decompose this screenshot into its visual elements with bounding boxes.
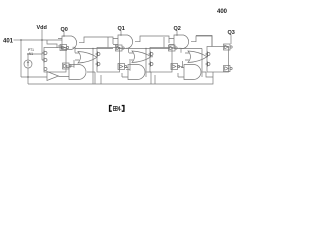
wire A3b inputs xyxy=(178,68,184,78)
wire box3 clock tap xyxy=(163,37,165,48)
latch box U3 xyxy=(150,48,172,73)
wire A2 output xyxy=(135,36,174,45)
transistor marks U4 left xyxy=(207,53,210,56)
wire D3t to OR3 xyxy=(179,48,182,53)
wire I1 bottom xyxy=(27,68,29,84)
wire O1 output xyxy=(96,56,99,58)
current source I1 xyxy=(24,60,32,68)
wire A3 output xyxy=(191,36,212,46)
latch box U4 xyxy=(207,47,229,73)
caption figure 4 xyxy=(110,106,124,112)
inverter D3b xyxy=(171,64,178,70)
wire A1 inputs xyxy=(58,39,62,47)
transistor marks U3 left xyxy=(150,53,153,56)
junction dots xyxy=(20,34,178,78)
inverter D1b xyxy=(63,63,70,69)
and gate A2 xyxy=(118,35,133,49)
wire D3b branch xyxy=(179,61,183,68)
or gate O3 xyxy=(188,51,207,63)
and gate A1 xyxy=(62,36,77,50)
wire O1 inputs xyxy=(75,53,79,60)
inverter D4t xyxy=(224,44,231,50)
wire O2 output xyxy=(151,56,153,58)
wire O2 inputs xyxy=(129,53,133,60)
wire D2b branch xyxy=(126,61,130,71)
wire O3 output xyxy=(207,56,208,58)
wire D1b branch xyxy=(70,60,75,68)
wire y48 inter-stage 3 xyxy=(181,49,202,78)
wire U2 tail xyxy=(100,75,102,84)
latch box U2 xyxy=(97,48,120,73)
wire A3b output xyxy=(203,72,214,77)
power Vdd lead xyxy=(41,30,43,61)
inverter D1t xyxy=(60,45,67,51)
wire y48 inter-stage 2 xyxy=(129,49,170,78)
wire Q2 tick xyxy=(176,31,178,36)
wire input rail y40 xyxy=(21,39,62,41)
wire box2 clock tap xyxy=(107,37,109,48)
wire U3 tail xyxy=(154,75,156,84)
buffer B1 xyxy=(47,72,59,81)
latch box U1 xyxy=(44,48,66,73)
transistor marks U2 left xyxy=(97,53,100,56)
wire left vertical x21 xyxy=(20,40,22,77)
inverter D2b xyxy=(118,64,125,70)
svg-text:400: 400 xyxy=(217,9,228,15)
inverter D3t xyxy=(169,45,176,51)
wire y48 inter-stage 1 xyxy=(75,49,113,85)
or gate O1 xyxy=(78,52,97,64)
wire A1b inputs xyxy=(59,68,70,77)
wire Q1 tick xyxy=(120,31,122,36)
wire A1b output xyxy=(87,72,95,84)
transistor marks U1 left xyxy=(42,51,44,63)
wire O3 inputs xyxy=(185,53,189,60)
wire box1 clock tap xyxy=(47,40,57,48)
wire feedback y77 xyxy=(21,76,47,78)
inverter D4b xyxy=(224,66,231,72)
wire I1 top xyxy=(28,54,42,60)
wire bottom rail y84 xyxy=(28,72,213,84)
wire D2t to OR2 xyxy=(126,48,129,53)
wire D1t to OR1 xyxy=(73,47,76,53)
inverter D2t xyxy=(116,45,123,51)
wire 401 lead xyxy=(14,39,22,41)
wire A2b output xyxy=(147,72,152,84)
wire A2b inputs xyxy=(122,68,128,78)
svg-text:401: 401 xyxy=(3,39,14,45)
and gate A3 xyxy=(174,35,189,49)
wire Q3 tick xyxy=(230,35,232,45)
wire A1 output xyxy=(79,37,118,45)
and gate A3b xyxy=(184,65,201,80)
and gate A2b xyxy=(128,65,145,80)
and gate A1b xyxy=(69,65,86,80)
wire Q0 tick xyxy=(63,32,65,37)
wire box4 clock tap xyxy=(196,36,212,47)
or gate O2 xyxy=(132,51,151,63)
